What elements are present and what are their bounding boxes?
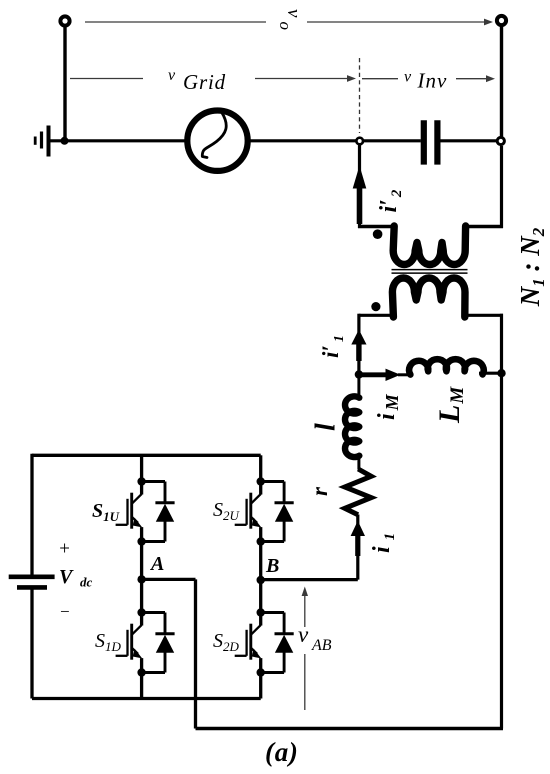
svg-text:B: B <box>265 555 279 577</box>
svg-text:r: r <box>307 486 332 496</box>
svg-text:v: v <box>404 69 412 86</box>
svg-text:dc: dc <box>80 575 93 590</box>
svg-text:Grid: Grid <box>183 70 226 94</box>
svg-text:A: A <box>149 553 164 575</box>
svg-text:Inv: Inv <box>417 69 448 93</box>
svg-text:N1 : N2: N1 : N2 <box>515 227 548 307</box>
svg-text:−: − <box>59 602 70 621</box>
svg-text:(a): (a) <box>265 737 299 767</box>
svg-text:v: v <box>298 622 309 647</box>
svg-text:l: l <box>311 423 342 431</box>
svg-text:V: V <box>59 566 74 588</box>
svg-text:AB: AB <box>311 637 332 654</box>
svg-text:+: + <box>58 539 71 560</box>
svg-text:v: v <box>168 67 176 84</box>
